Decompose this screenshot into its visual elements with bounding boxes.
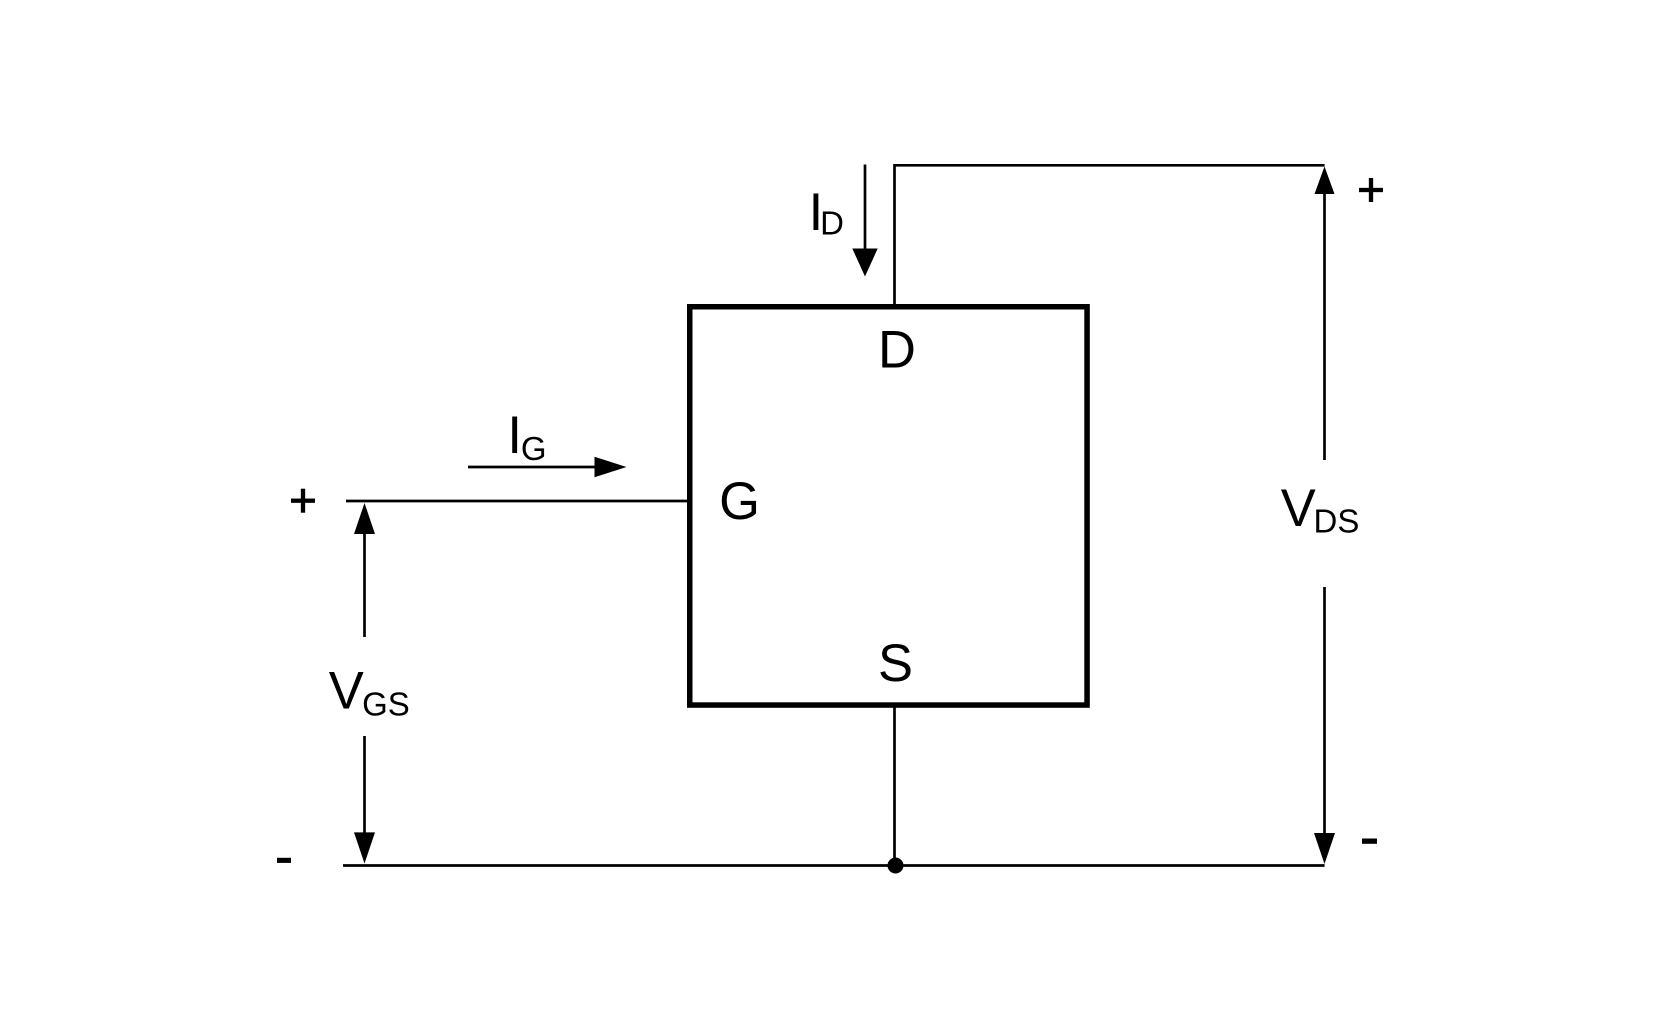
wire gate: from left to box left edge (346, 500, 690, 503)
label VDS (1281, 479, 1360, 540)
wire drain: from box top to top rail and right to VDS corner (895, 165, 1325, 306)
minus sign for VDS (1362, 839, 1377, 844)
current arrow IG (gate current, pointing right) (468, 457, 627, 478)
label ID (809, 183, 844, 242)
label IG (507, 406, 546, 467)
current arrow ID (drain current, pointing down) (852, 165, 877, 277)
svg-text:V: V (329, 662, 364, 721)
wire source: from box bottom down to bottom rail (893, 705, 896, 866)
svg-text:I: I (507, 406, 522, 465)
plus sign for VGS (291, 489, 315, 513)
transistor Q1 body box (690, 307, 1087, 705)
node junction dot at source/bottom rail (888, 858, 904, 874)
voltage arrow VDS (double-headed, right side) (1314, 167, 1335, 865)
pin label S (878, 634, 913, 693)
label VGS (329, 662, 410, 723)
svg-text:G: G (521, 430, 547, 467)
voltage arrow VGS (double-headed, left side) (354, 503, 375, 864)
svg-text:V: V (1281, 479, 1316, 538)
svg-text:D: D (878, 321, 916, 380)
pin label D (878, 321, 916, 380)
svg-text:S: S (878, 634, 913, 693)
minus sign for VGS (277, 858, 291, 863)
svg-text:D: D (820, 205, 844, 242)
svg-text:GS: GS (362, 686, 410, 723)
plus sign for VDS (1359, 178, 1383, 202)
pin label G (719, 472, 760, 531)
svg-text:G: G (719, 472, 760, 531)
wire bottom rail (343, 864, 1325, 867)
svg-text:DS: DS (1314, 503, 1360, 540)
